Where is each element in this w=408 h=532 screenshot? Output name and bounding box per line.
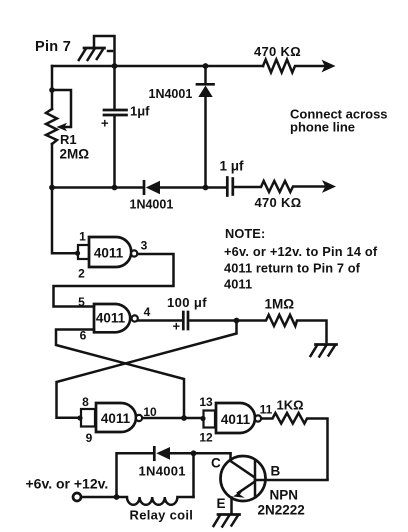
svg-text:phone line: phone line bbox=[290, 120, 355, 135]
svg-text:4011: 4011 bbox=[101, 411, 131, 426]
svg-text:4011: 4011 bbox=[224, 276, 252, 291]
svg-text:5: 5 bbox=[78, 295, 85, 309]
svg-text:4011 return to Pin 7 of: 4011 return to Pin 7 of bbox=[224, 260, 361, 275]
svg-text:12: 12 bbox=[199, 431, 213, 445]
svg-text:1μf: 1μf bbox=[130, 104, 150, 119]
svg-text:R1: R1 bbox=[60, 132, 77, 147]
svg-text:3: 3 bbox=[141, 239, 148, 253]
svg-text:Pin 7: Pin 7 bbox=[35, 39, 71, 55]
svg-text:13: 13 bbox=[199, 395, 213, 409]
svg-text:2N2222: 2N2222 bbox=[258, 503, 305, 518]
svg-text:1N4001: 1N4001 bbox=[149, 87, 193, 101]
svg-text:2: 2 bbox=[78, 267, 85, 281]
svg-text:6: 6 bbox=[80, 329, 87, 343]
svg-text:10: 10 bbox=[143, 405, 157, 419]
svg-text:B: B bbox=[271, 464, 281, 479]
svg-text:E: E bbox=[217, 496, 226, 511]
svg-text:8: 8 bbox=[82, 395, 89, 409]
svg-text:Relay coil: Relay coil bbox=[130, 508, 194, 523]
svg-text:NPN: NPN bbox=[270, 488, 299, 503]
svg-text:NOTE:: NOTE: bbox=[225, 226, 265, 241]
svg-text:470 KΩ: 470 KΩ bbox=[255, 195, 302, 210]
svg-text:1N4001: 1N4001 bbox=[139, 464, 186, 479]
svg-text:9: 9 bbox=[86, 431, 93, 445]
svg-text:1MΩ: 1MΩ bbox=[265, 297, 295, 312]
svg-text:+: + bbox=[173, 319, 181, 334]
svg-text:4011: 4011 bbox=[221, 412, 251, 427]
svg-text:4011: 4011 bbox=[96, 311, 126, 326]
svg-text:2MΩ: 2MΩ bbox=[60, 147, 90, 162]
svg-text:4: 4 bbox=[144, 305, 151, 319]
svg-text:+6v. or +12v. to Pin 14 of: +6v. or +12v. to Pin 14 of bbox=[224, 244, 378, 259]
svg-text:+: + bbox=[101, 116, 109, 131]
svg-text:11: 11 bbox=[260, 403, 273, 417]
svg-text:+6v. or +12v.: +6v. or +12v. bbox=[26, 476, 109, 492]
svg-text:1N4001: 1N4001 bbox=[130, 198, 174, 212]
svg-text:4011: 4011 bbox=[94, 246, 124, 261]
svg-text:100 μf: 100 μf bbox=[167, 295, 207, 310]
svg-text:1: 1 bbox=[79, 230, 86, 244]
svg-text:C: C bbox=[211, 456, 221, 471]
svg-text:1 μf: 1 μf bbox=[220, 159, 245, 174]
svg-text:1KΩ: 1KΩ bbox=[277, 398, 304, 413]
svg-text:470 KΩ: 470 KΩ bbox=[254, 44, 301, 59]
